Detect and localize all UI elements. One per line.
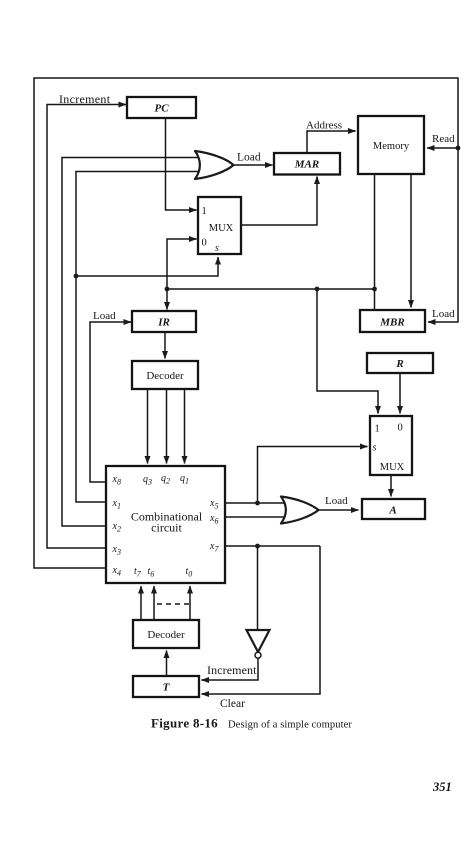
wire: net x2 - comb circuit x2 up to OR1 upper input	[62, 158, 198, 527]
wire: bus from MBR output to left (feeds IR and MUX1 0)	[167, 288, 375, 290]
wire: Decoder2 output t7	[140, 586, 142, 620]
svg-text:Load: Load	[237, 152, 261, 164]
svg-text:0: 0	[202, 238, 207, 249]
register A	[362, 499, 425, 519]
svg-text:A: A	[388, 505, 396, 517]
wire: net x1 - comb circuit x1 up to OR1 lower input	[76, 172, 198, 503]
register R	[367, 353, 433, 373]
svg-text:Address: Address	[306, 120, 342, 132]
wire: OR1 output to MAR Load	[233, 164, 273, 166]
svg-text:Decoder: Decoder	[147, 629, 185, 641]
svg-text:Clear: Clear	[220, 698, 245, 710]
wire: net x4 - comb circuit x4 to top rail, Read and MBR Load	[34, 78, 460, 568]
wire: bus up to MUX1 input 0	[167, 239, 197, 289]
register T	[133, 676, 199, 697]
wire: bus down into IR	[166, 289, 168, 310]
svg-text:IR: IR	[157, 317, 170, 329]
wire: bus branch down to MUX2 input 1	[317, 289, 378, 414]
wire: inverter output to T Increment	[202, 658, 259, 680]
wire: Decoder output q3	[147, 389, 149, 464]
svg-text:MAR: MAR	[294, 159, 319, 171]
junction node on x1 vertical	[74, 274, 79, 279]
mux MUX2	[370, 416, 412, 475]
or-gate G2 (A load)	[281, 497, 319, 524]
junction bus left end	[165, 287, 170, 292]
svg-text:1: 1	[375, 424, 380, 435]
decoder (instruction)	[132, 361, 198, 389]
wire: Memory data out down into MBR	[410, 174, 412, 308]
register MAR	[274, 153, 340, 175]
wire: MAR to Memory Address	[307, 131, 356, 153]
svg-text:351: 351	[432, 780, 452, 794]
svg-text:s: s	[373, 443, 377, 454]
svg-text:Design of a simple computer: Design of a simple computer	[228, 720, 352, 731]
BOXES	[106, 97, 433, 697]
svg-text:Load: Load	[432, 308, 455, 320]
svg-text:Figure 8-16: Figure 8-16	[151, 716, 218, 731]
wire: branch of x1 to MUX1 select s	[74, 257, 218, 278]
svg-text:Memory: Memory	[373, 141, 410, 152]
wire: PC output down to MUX1 input 1	[166, 118, 197, 210]
svg-text:MUX: MUX	[209, 223, 234, 234]
svg-text:Increment: Increment	[207, 663, 257, 677]
svg-text:Load: Load	[325, 495, 348, 507]
wire: Read branch into Memory	[427, 147, 458, 149]
register MBR	[360, 310, 425, 332]
svg-text:circuit: circuit	[151, 521, 182, 535]
wire: x5 output to OR2 and MUX2 select s	[225, 447, 368, 506]
svg-text:Load: Load	[93, 310, 116, 322]
svg-text:MUX: MUX	[380, 462, 405, 473]
Memory unit	[358, 116, 424, 174]
svg-text:s: s	[215, 243, 219, 254]
junction bus/MBR vertical	[372, 287, 377, 292]
wire: MUX2 output down to A	[390, 475, 392, 497]
svg-text:R: R	[395, 358, 403, 370]
wire: x6 output to OR2	[225, 516, 285, 518]
inverter (x7 to Increment T)	[247, 630, 270, 658]
combinational circuit block	[106, 466, 225, 583]
junction on Read line	[456, 146, 461, 151]
wire: OR2 output to A Load	[318, 509, 359, 511]
or-gate G1 (MAR load)	[195, 151, 234, 179]
wire: x7 right branch down to T Clear	[202, 546, 321, 694]
wire: MUX1 output right and up into MAR bottom	[241, 177, 317, 226]
wire: net x3 - comb circuit x3 up to PC Increment	[47, 105, 126, 549]
wire: Memory/MBR left vertical (MBR output to Memory)	[374, 174, 376, 310]
wire: T up to Decoder2	[166, 651, 168, 677]
svg-text:PC: PC	[154, 103, 169, 115]
svg-text:Decoder: Decoder	[146, 370, 184, 382]
svg-text:1: 1	[202, 206, 207, 217]
wire: Decoder output q2	[166, 389, 168, 464]
wire: Decoder2 output t0	[189, 586, 191, 620]
wire: net x8 - comb circuit x8 up to IR Load	[90, 322, 131, 482]
svg-text:MBR: MBR	[379, 317, 404, 329]
wire: Decoder output q1	[184, 389, 186, 464]
wire: Decoder2 output t6	[153, 586, 155, 620]
junction bus at x=317	[315, 287, 320, 292]
wire: IR down to Decoder	[164, 332, 166, 359]
register IR	[132, 311, 196, 332]
wire: R output down to MUX2 input 0	[399, 373, 401, 414]
decoder (timing)	[133, 620, 199, 648]
svg-text:0: 0	[398, 423, 403, 434]
mux MUX1	[198, 197, 241, 254]
wire: dashed omitted timing lines	[157, 603, 190, 605]
wire: x7 output, branch to inverter and Clear	[225, 544, 320, 630]
svg-text:Read: Read	[432, 133, 455, 145]
register PC	[127, 97, 196, 118]
svg-text:Increment: Increment	[59, 92, 111, 106]
